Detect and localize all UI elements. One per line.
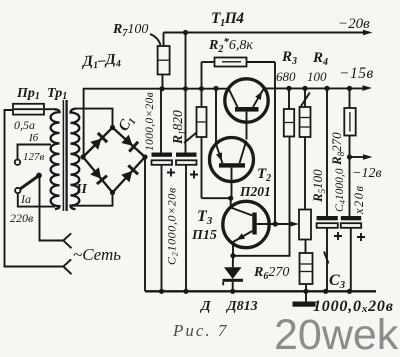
svg-text:127в: 127в <box>23 151 45 163</box>
transformer core <box>62 100 64 211</box>
wire 220в terminal to primary bottom <box>18 193 55 206</box>
node R8 on -15в rail <box>347 86 352 91</box>
wire ground rail <box>145 290 376 292</box>
svg-text:R1820: R1820 <box>170 110 187 145</box>
node R1/R2 on raw rail <box>199 86 204 91</box>
resistor R3 <box>284 88 294 136</box>
svg-text:R5100: R5100 <box>310 169 327 203</box>
wire drop from -20в rail to C2 <box>185 33 187 153</box>
node C2 on ground rail <box>183 289 188 294</box>
node bridge right vertex <box>142 154 147 159</box>
svg-text:х20в: х20в <box>352 185 366 215</box>
capacitor C2 <box>176 153 198 292</box>
svg-text:1000,0×20в: 1000,0×20в <box>144 92 156 151</box>
wire -20в top rail <box>164 32 366 34</box>
node -12в / R8 / C4 <box>347 154 352 159</box>
node C3 on ground rail <box>323 289 328 294</box>
Сеть connector lower <box>63 259 71 274</box>
node T2 emitter on raw rail <box>213 86 218 91</box>
wire R1 to T2 base node <box>202 197 231 199</box>
node bridge left vertex <box>80 154 85 159</box>
resistor R1 <box>197 62 207 198</box>
node R3 on -15в rail <box>286 86 291 91</box>
transistor T2 <box>210 88 254 198</box>
resistor R4 <box>300 88 311 209</box>
svg-text:−20в: −20в <box>338 16 370 32</box>
svg-text:−12в: −12в <box>352 166 382 181</box>
svg-text:Д: Д <box>199 299 211 314</box>
diode Д4 bottom-right <box>121 165 138 182</box>
svg-text:Д813: Д813 <box>225 299 258 314</box>
node T3 emitter / zener <box>230 253 235 258</box>
wire bridge left vertex up and raw rail to T1 emitter <box>84 89 227 157</box>
svg-text:20wek: 20wek <box>274 311 399 357</box>
wire secondary bottom to bridge bottom vertex <box>71 193 113 206</box>
resistor R2 <box>202 58 276 67</box>
svg-text:0,5а: 0,5а <box>14 118 35 132</box>
switch arm <box>20 176 39 190</box>
wire secondary top to bridge top vertex <box>76 109 113 128</box>
svg-text:Т1П4: Т1П4 <box>211 10 244 29</box>
svg-text:Рис. 7: Рис. 7 <box>172 321 228 340</box>
wiper arrowhead into R5 <box>290 221 300 227</box>
node R6 on ground rail <box>303 289 308 294</box>
node zener on ground rail <box>230 289 235 294</box>
transistor T1 <box>225 79 268 140</box>
svg-text:R7100: R7100 <box>112 22 148 39</box>
resistor R8 <box>344 88 355 157</box>
diode Д3 bottom-left <box>90 167 107 184</box>
svg-text:100: 100 <box>307 69 327 84</box>
svg-text:220в: 220в <box>10 211 33 225</box>
wire -15в rail from T1 collector <box>264 87 364 89</box>
node C2 drop on raw rail <box>183 86 188 91</box>
Сеть connector upper <box>63 233 71 248</box>
svg-text:Iа: Iа <box>20 192 31 206</box>
wire switch common down to upper Сеть lead <box>40 178 64 241</box>
svg-text:R6270: R6270 <box>253 265 289 282</box>
wire emitter node to R3 bottom link <box>233 137 290 256</box>
diode Д1 top-left <box>90 133 107 150</box>
label R1 820 leader <box>184 133 197 144</box>
transformer Тр1 secondary winding II <box>71 109 80 210</box>
svg-text:П15: П15 <box>191 228 217 243</box>
svg-text:Iб: Iб <box>28 132 39 144</box>
capacitor C1 <box>152 89 176 292</box>
resistor R7 <box>158 33 170 89</box>
node C1 on ground rail <box>159 289 164 294</box>
wire bridge right vertex down to ground rail <box>144 157 146 291</box>
transistor T3 <box>223 201 293 255</box>
node C3 on -15в rail <box>324 86 329 91</box>
zener diode Д813 <box>223 256 244 292</box>
wire -12в arrow <box>350 156 366 158</box>
node C4 on ground rail <box>347 289 352 294</box>
svg-text:С41000,0: С41000,0 <box>334 168 347 212</box>
diode Д2 top-right <box>121 135 138 152</box>
node R4 on -15в rail <box>302 86 307 91</box>
wire R2 right drop to T3 base node <box>274 62 276 224</box>
ground symbol <box>293 291 316 306</box>
svg-text:R2*6,8к: R2*6,8к <box>208 36 253 55</box>
node T2 base / R1 / T3 collector <box>228 196 233 201</box>
svg-text:−15в: −15в <box>339 65 374 82</box>
wire T2 base node down to T3 collector <box>230 198 232 207</box>
wire mains left vertical from fuse down to lower Сеть lead <box>5 110 64 267</box>
potentiometer R5 <box>299 210 311 254</box>
svg-text:R8270: R8270 <box>329 132 346 166</box>
svg-text:~Сеть: ~Сеть <box>73 245 121 264</box>
svg-text:П201: П201 <box>239 184 271 199</box>
svg-text:II: II <box>75 182 87 197</box>
node R7/C1 on raw rail <box>159 86 164 91</box>
bridge diamond wires <box>83 128 145 193</box>
fuse Пр1 <box>13 104 54 115</box>
node T3 base / R2 <box>273 221 278 226</box>
transformer Тр1 primary winding <box>51 109 60 209</box>
node bridge top vertex <box>110 125 115 130</box>
node top rail / C2 drop <box>183 30 188 35</box>
svg-text:680: 680 <box>276 69 296 84</box>
capacitor C3 <box>317 88 342 291</box>
resistor R6 <box>300 253 313 291</box>
capacitor C4 <box>341 157 365 291</box>
node bridge bottom vertex <box>110 190 115 195</box>
tap 127в wire and terminal <box>18 145 52 160</box>
